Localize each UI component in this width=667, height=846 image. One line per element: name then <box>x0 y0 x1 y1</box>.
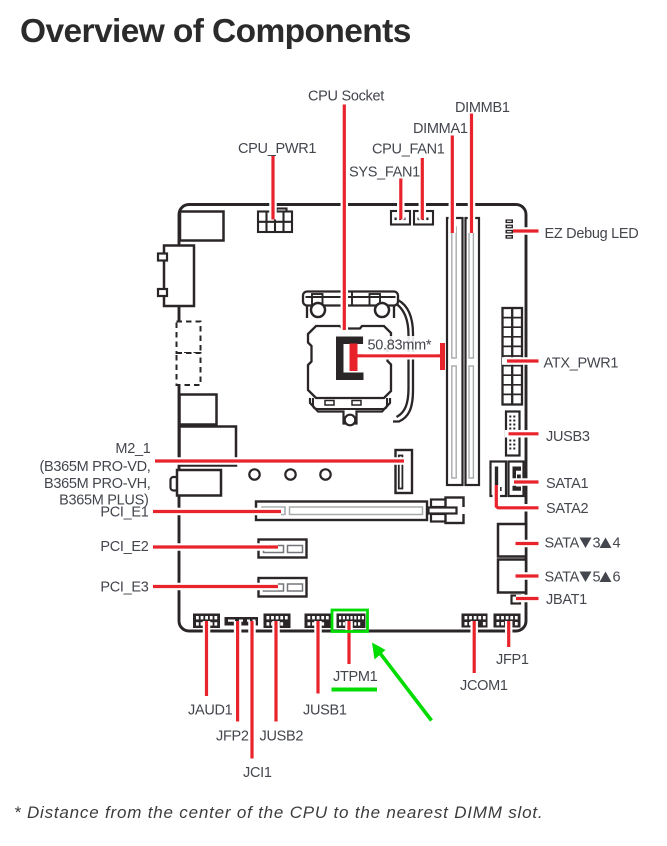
svg-text:ATX_PWR1: ATX_PWR1 <box>544 356 619 372</box>
svg-text:SYS_FAN1: SYS_FAN1 <box>349 165 420 181</box>
svg-text:SATA2: SATA2 <box>546 501 589 517</box>
svg-text:CPU_PWR1: CPU_PWR1 <box>238 141 316 157</box>
svg-text:JUSB1: JUSB1 <box>303 703 347 719</box>
svg-text:PCI_E1: PCI_E1 <box>100 505 148 521</box>
svg-text:JBAT1: JBAT1 <box>546 592 587 608</box>
svg-text:3: 3 <box>593 536 601 552</box>
svg-text:DIMMA1: DIMMA1 <box>413 121 468 137</box>
svg-text:JUSB2: JUSB2 <box>260 729 304 745</box>
svg-text:CPU Socket: CPU Socket <box>308 89 384 105</box>
svg-text:JCOM1: JCOM1 <box>460 678 508 694</box>
svg-text:JCI1: JCI1 <box>243 765 272 781</box>
svg-text:Overview of Components: Overview of Components <box>20 13 411 50</box>
svg-text:JAUD1: JAUD1 <box>188 703 233 719</box>
svg-text:50.83mm*: 50.83mm* <box>368 338 432 354</box>
svg-text:PCI_E3: PCI_E3 <box>100 580 148 596</box>
svg-text:EZ Debug LED: EZ Debug LED <box>545 226 639 242</box>
svg-text:B365M PRO-VH,: B365M PRO-VH, <box>44 476 151 492</box>
svg-text:4: 4 <box>613 536 621 552</box>
svg-text:DIMMB1: DIMMB1 <box>455 100 510 116</box>
svg-text:JFP2: JFP2 <box>216 729 249 745</box>
svg-text:JFP1: JFP1 <box>496 652 529 668</box>
svg-text:SATA: SATA <box>545 570 580 586</box>
svg-text:* Distance from the center of: * Distance from the center of the CPU to… <box>14 803 543 822</box>
svg-text:5: 5 <box>593 570 601 586</box>
svg-text:JUSB3: JUSB3 <box>546 429 590 445</box>
svg-text:(B365M PRO-VD,: (B365M PRO-VD, <box>39 459 150 475</box>
svg-text:SATA: SATA <box>545 536 580 552</box>
svg-text:6: 6 <box>613 570 621 586</box>
svg-text:JTPM1: JTPM1 <box>333 669 378 685</box>
svg-text:M2_1: M2_1 <box>115 441 150 457</box>
svg-text:SATA1: SATA1 <box>546 476 589 492</box>
svg-text:CPU_FAN1: CPU_FAN1 <box>372 142 445 158</box>
svg-text:PCI_E2: PCI_E2 <box>100 539 148 555</box>
